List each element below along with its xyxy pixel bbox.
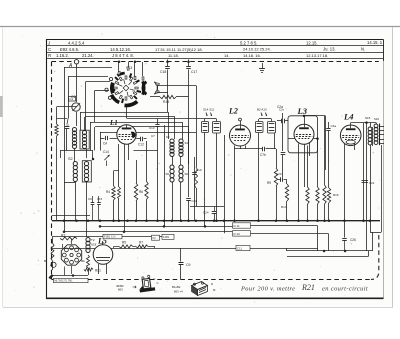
svg-text:C11: C11 — [237, 247, 242, 251]
svg-text:C20: C20 — [276, 172, 282, 176]
svg-text:S15: S15 — [365, 116, 371, 120]
svg-text:R9: R9 — [267, 181, 271, 185]
svg-text:14.: 14. — [224, 53, 230, 58]
svg-text:S18: S18 — [91, 243, 97, 247]
svg-text:C2a: C2a — [277, 105, 283, 109]
svg-text:R16: R16 — [333, 193, 339, 197]
svg-text:S5: S5 — [166, 172, 170, 176]
svg-text:C18: C18 — [160, 70, 166, 74]
svg-text:B2 A13: B2 A13 — [257, 108, 267, 112]
svg-text:S4: S4 — [185, 141, 189, 145]
svg-text:R19: R19 — [163, 100, 169, 104]
svg-text:C7b: C7b — [260, 153, 266, 157]
svg-text:21.24.: 21.24. — [82, 53, 94, 58]
svg-text:S6: S6 — [185, 172, 189, 176]
svg-text:1.16.2.: 1.16.2. — [56, 53, 69, 58]
svg-text:J: J — [48, 41, 50, 46]
svg-text:14.18. 16.: 14.18. 16. — [243, 53, 261, 58]
svg-text:C9: C9 — [186, 263, 191, 267]
svg-text:F1B1: F1B1 — [163, 235, 170, 239]
svg-text:C13: C13 — [149, 126, 155, 130]
svg-text:F1B1 C.N: F1B1 C.N — [104, 235, 116, 239]
svg-text:Ju. 13.: Ju. 13. — [323, 47, 336, 52]
svg-text:Rb: Rb — [81, 259, 85, 263]
svg-text:B4+B2: B4+B2 — [172, 285, 181, 289]
svg-text:R7: R7 — [139, 241, 143, 245]
svg-text:C6: C6 — [88, 197, 92, 201]
svg-text:J 8 4 7 4. 8.: J 8 4 7 4. 8. — [112, 53, 134, 58]
svg-text:4.4.2 5.4: 4.4.2 5.4 — [68, 41, 85, 46]
svg-text:S3: S3 — [166, 135, 170, 139]
svg-text:en court-circuit: en court-circuit — [322, 286, 368, 293]
svg-text:L1: L1 — [109, 119, 118, 127]
svg-text:C4a: C4a — [331, 124, 337, 128]
svg-text:C15: C15 — [97, 197, 103, 201]
svg-text:C1: C1 — [70, 97, 74, 101]
svg-text:L3: L3 — [297, 106, 308, 116]
svg-text:MI3 +4: MI3 +4 — [174, 290, 183, 294]
svg-text:R5: R5 — [122, 241, 126, 245]
svg-text:L2: L2 — [228, 107, 238, 116]
svg-text:R: R — [48, 53, 51, 58]
svg-text:R21: R21 — [301, 283, 315, 292]
svg-text:ML TM2 2TL TML: ML TM2 2TL TML — [55, 281, 74, 283]
svg-text:C24: C24 — [203, 211, 209, 215]
svg-text:12.15.: 12.15. — [306, 40, 318, 45]
svg-text:B: B — [44, 259, 46, 263]
svg-text:17.51 15.11 11.27(5)12 18.: 17.51 15.11 11.27(5)12 18. — [155, 47, 203, 52]
svg-text:C26: C26 — [350, 238, 356, 242]
svg-text:S2: S2 — [68, 157, 73, 161]
svg-text:5.2 7 8 5.: 5.2 7 8 5. — [240, 40, 257, 45]
svg-text:Pour 200 v. mettre: Pour 200 v. mettre — [240, 286, 295, 293]
svg-text:A: A — [68, 63, 73, 69]
svg-text:E92 4.6.5.: E92 4.6.5. — [60, 47, 79, 52]
svg-text:R13: R13 — [281, 205, 287, 209]
svg-text:R21: R21 — [95, 269, 101, 273]
svg-text:C10: C10 — [196, 168, 202, 172]
svg-text:T2: T2 — [91, 238, 95, 242]
svg-text:12.13.17.18.: 12.13.17.18. — [306, 53, 328, 58]
svg-text:C: C — [48, 47, 51, 52]
svg-text:S16: S16 — [374, 117, 379, 121]
svg-text:14.15. 1: 14.15. 1 — [367, 40, 383, 45]
svg-text:C: C — [157, 281, 159, 285]
svg-text:24.10.12 25.24.: 24.10.12 25.24. — [243, 47, 271, 52]
svg-text:D: D — [211, 282, 213, 286]
svg-text:11.18.: 11.18. — [168, 53, 179, 58]
svg-text:R 11: R 11 — [234, 224, 240, 228]
svg-text:14.5.12.16.: 14.5.12.16. — [110, 47, 131, 52]
svg-text:R4: R4 — [106, 190, 110, 194]
svg-text:R 10: R 10 — [234, 232, 241, 236]
svg-text:C7: C7 — [151, 134, 155, 138]
svg-text:C17: C17 — [191, 70, 197, 74]
svg-text:C12: C12 — [138, 143, 144, 147]
svg-text:R6: R6 — [139, 190, 143, 194]
svg-text:C21: C21 — [369, 181, 375, 185]
svg-text:MI3: MI3 — [118, 288, 123, 292]
svg-text:C4: C4 — [103, 142, 107, 146]
svg-text:C14: C14 — [103, 150, 109, 154]
svg-text:S14 S11: S14 S11 — [203, 108, 215, 112]
svg-text:S1: S1 — [66, 124, 70, 128]
svg-text:L4: L4 — [343, 112, 353, 122]
svg-text:E: E — [154, 277, 156, 281]
svg-text:N.: N. — [361, 47, 365, 52]
